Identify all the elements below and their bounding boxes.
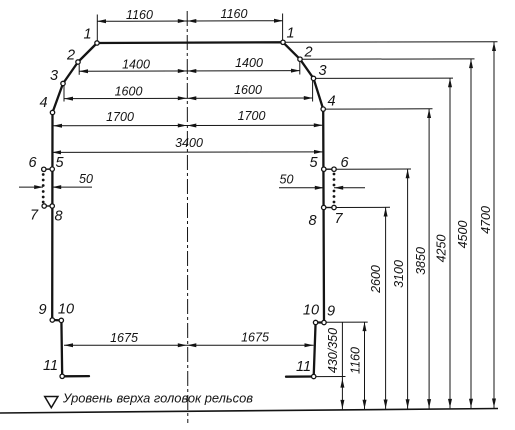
svg-text:6: 6 <box>28 155 37 171</box>
dim 1160 right arrows <box>187 19 196 23</box>
svg-text:50: 50 <box>280 172 294 186</box>
dim 1675 left arrows <box>64 343 73 347</box>
svg-text:6: 6 <box>340 155 349 171</box>
svg-text:1675: 1675 <box>241 331 269 345</box>
gauge profile right foot 11 <box>286 375 314 378</box>
svg-text:3: 3 <box>50 68 58 84</box>
svg-text:11: 11 <box>296 359 311 375</box>
svg-text:9: 9 <box>38 302 46 318</box>
gauge profile left step 9-10 <box>52 319 61 322</box>
dimension line 1400 row <box>79 70 300 73</box>
node 10 left <box>59 318 63 322</box>
node 7 left <box>42 204 46 208</box>
svg-text:1160: 1160 <box>221 7 248 21</box>
svg-text:2600: 2600 <box>369 265 383 294</box>
svg-text:10: 10 <box>58 302 74 318</box>
svg-text:7: 7 <box>334 211 343 227</box>
dimension line 430/350 <box>341 323 343 410</box>
node 6 right <box>332 167 336 171</box>
extension line below point 2 left <box>78 65 80 75</box>
svg-text:9: 9 <box>327 304 335 320</box>
dim 50 left arrows <box>34 185 43 189</box>
centerline (vehicle axis, dash-dot) <box>186 11 189 423</box>
dim 1600 right arrows <box>187 96 196 100</box>
dim 50 right arrows <box>315 186 324 190</box>
dimension line 3100 <box>407 169 409 409</box>
connector 7-8 right <box>324 207 334 209</box>
rail top level line <box>0 409 498 414</box>
svg-text:1700: 1700 <box>238 109 266 123</box>
svg-text:5: 5 <box>309 155 318 171</box>
extension line below point 3 right <box>312 81 314 102</box>
node 3 left <box>61 81 65 85</box>
dim 1700 left arrows <box>53 124 62 128</box>
svg-text:1600: 1600 <box>234 83 262 97</box>
dimension line 1160 vertical <box>364 322 366 409</box>
rail level triangle symbol <box>45 397 58 408</box>
svg-text:4: 4 <box>39 95 47 111</box>
extension line from point 11 right to 430/350 <box>316 376 346 378</box>
node 9 right <box>322 320 326 324</box>
dimension line 2600 <box>385 208 387 410</box>
node 11 left <box>60 374 64 378</box>
extension line above point 1 right <box>282 14 284 41</box>
dimension line 1600 row <box>64 97 313 100</box>
svg-text:4250: 4250 <box>435 235 449 263</box>
node 2 right <box>298 57 302 61</box>
node 8 left <box>50 204 54 208</box>
svg-text:1: 1 <box>83 27 91 43</box>
svg-text:1700: 1700 <box>106 110 134 124</box>
extension line below point 3 left <box>63 86 65 102</box>
node 6 left <box>42 167 46 171</box>
dimension line 50 right <box>279 187 324 189</box>
gauge profile right lower vertical 10-11 <box>314 323 316 377</box>
svg-text:2: 2 <box>303 45 312 61</box>
gauge profile right slope 1-2-3-4 <box>283 42 323 109</box>
svg-text:3850: 3850 <box>414 247 428 275</box>
gauge profile right step 9-10 <box>316 321 324 323</box>
extension line from point 7 right to 2600 <box>336 206 390 208</box>
node 10 right <box>313 320 317 324</box>
gauge profile top line (1-1) <box>97 41 283 44</box>
gauge profile left side vertical 4-9 <box>51 113 54 321</box>
connector 7-8 left <box>44 205 52 207</box>
gauge profile right side vertical 4-9 <box>322 109 325 322</box>
svg-text:Уровень верха головок рельсов: Уровень верха головок рельсов <box>62 390 253 405</box>
extension line from point 1 right to 4700 <box>286 41 498 43</box>
svg-text:50: 50 <box>79 172 93 186</box>
connector 5-6 left <box>44 168 53 170</box>
gauge profile left foot 11 <box>62 375 89 377</box>
svg-text:4500: 4500 <box>456 221 470 249</box>
extension line below point 2 right <box>299 62 301 75</box>
svg-text:1160: 1160 <box>126 8 153 22</box>
svg-text:10: 10 <box>303 303 319 319</box>
dim 1160 left arrows <box>97 19 106 23</box>
dim 1400 left arrows <box>79 69 88 73</box>
extension line from point 3 right to 4250 <box>316 77 453 79</box>
dotted line 6-7 right <box>333 173 336 204</box>
node 4 right <box>321 107 325 111</box>
dim 1400 right arrows <box>187 69 196 73</box>
node 2 left <box>76 60 80 64</box>
node 5 right <box>322 167 326 171</box>
svg-text:4700: 4700 <box>479 206 493 234</box>
node 5 left <box>50 167 54 171</box>
svg-text:8: 8 <box>308 213 316 229</box>
extension line from point 9 right to 1160 <box>326 321 368 323</box>
dotted line 6-7 left <box>42 173 45 203</box>
dimension line 3850 <box>428 109 430 409</box>
dimension line 50 left <box>19 186 43 188</box>
dimension line 1160 row <box>97 20 283 23</box>
extension line above point 1 left <box>96 15 98 41</box>
node 7 right <box>332 205 336 209</box>
node 8 right <box>322 205 326 209</box>
extension line from point 6 right to 3100 <box>336 168 411 170</box>
dim 3400 arrows <box>52 150 61 154</box>
svg-text:11: 11 <box>43 358 58 374</box>
svg-text:7: 7 <box>30 208 39 224</box>
node 1 right <box>281 40 285 44</box>
svg-text:3100: 3100 <box>392 260 406 288</box>
svg-text:1: 1 <box>286 26 294 42</box>
node 11 right <box>312 374 316 378</box>
gauge profile left slope 1-2-3-4 <box>53 43 98 113</box>
dimension line 3400 row <box>52 151 323 154</box>
svg-text:8: 8 <box>54 209 62 225</box>
svg-text:1400: 1400 <box>122 58 150 72</box>
dimension line 4500 <box>470 59 472 408</box>
extension line from point 2 right to 4500 <box>302 58 474 60</box>
connector 5-6 right <box>324 168 334 170</box>
node 3 right <box>311 76 315 80</box>
dim 1675 right arrows <box>187 343 196 347</box>
svg-text:4: 4 <box>327 94 335 110</box>
node 4 left <box>50 110 54 114</box>
svg-text:1600: 1600 <box>115 85 143 99</box>
dimension line 4700 <box>493 42 495 408</box>
dimension line 1675 row <box>64 344 314 346</box>
svg-text:3: 3 <box>318 63 326 79</box>
svg-text:5: 5 <box>55 155 64 171</box>
dim 1600 left arrows <box>64 97 73 101</box>
svg-text:1675: 1675 <box>110 331 138 345</box>
node 9 left <box>50 318 54 322</box>
extension line from point 4 right to 3850 <box>326 108 433 110</box>
svg-text:3400: 3400 <box>175 136 203 150</box>
svg-text:2: 2 <box>66 48 75 64</box>
svg-text:430/350: 430/350 <box>326 328 340 373</box>
gauge profile left lower vertical 10-11 <box>60 320 63 376</box>
dimension line 4250 <box>449 78 451 408</box>
node 1 left <box>95 41 99 45</box>
dim 1700 right arrows <box>187 124 196 128</box>
svg-text:1160: 1160 <box>349 347 363 374</box>
svg-text:1400: 1400 <box>235 56 263 70</box>
dimension line 1700 row <box>53 124 323 126</box>
